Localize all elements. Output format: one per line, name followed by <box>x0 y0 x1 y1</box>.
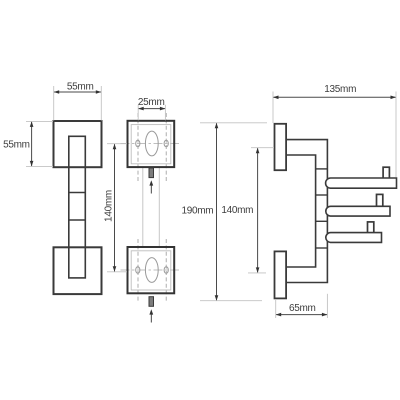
bottom wall plate (back view) <box>128 247 175 293</box>
hidden bar edges between plates <box>143 167 160 247</box>
dimension 190mm extension lines <box>200 123 267 301</box>
dimension 55mm (left height) extension lines <box>26 121 53 166</box>
arm 1 peg <box>383 167 389 178</box>
dimension 135mm extension lines <box>273 92 396 178</box>
svg-text:140mm: 140mm <box>103 190 114 222</box>
dimension 140mm (right) line and arrows <box>256 148 260 273</box>
dimension 55mm (top width) extension lines <box>54 86 102 121</box>
bar joint line 2 <box>69 219 86 221</box>
arm 2 (middle) <box>326 206 390 216</box>
top square plate (front view) <box>54 121 102 167</box>
arm 3 (bottom) <box>326 233 382 243</box>
svg-text:140mm: 140mm <box>221 205 253 216</box>
bottom square plate (front view) <box>54 247 102 294</box>
dimension 190mm line and arrows <box>215 123 219 301</box>
bottom wall plate (side) <box>275 251 287 298</box>
connecting bar (front view) <box>69 136 86 278</box>
bottom plate center oblong hole <box>145 258 158 283</box>
svg-text:190mm: 190mm <box>181 205 213 216</box>
arm 2 peg <box>377 194 383 206</box>
bar joint line 1 <box>69 192 86 194</box>
top wall plate (back view) <box>128 121 175 167</box>
dimension 25mm extension lines <box>138 105 165 121</box>
top plate screw-hole center dashed lines <box>138 113 166 183</box>
svg-text:55mm: 55mm <box>3 139 30 150</box>
dimension 135mm line and arrows <box>273 96 396 100</box>
bottom plate inner edge <box>131 251 171 290</box>
top plate left screw hole <box>136 140 140 147</box>
post joint line 1 <box>316 168 328 170</box>
dimension 65mm extension lines <box>276 294 328 318</box>
top plate inner edge <box>131 125 171 164</box>
dimension 25mm line and arrows <box>138 107 165 111</box>
top screw pointer arrow <box>149 180 153 193</box>
top plate screw stub <box>149 168 154 178</box>
bottom plate horizontal centerline <box>121 269 182 271</box>
top plate right screw hole <box>164 140 168 147</box>
svg-text:25mm: 25mm <box>138 97 165 108</box>
top plate center oblong hole <box>145 131 158 156</box>
top plate horizontal centerline <box>121 143 182 145</box>
dimension 140mm (right, plate spacing) extension lines <box>248 148 274 273</box>
post joint line 2 <box>316 194 328 196</box>
top bracket and post outline <box>286 140 327 283</box>
top wall plate (side) <box>275 124 287 170</box>
post joint line 4 <box>316 247 328 249</box>
arm 3 peg <box>368 222 374 233</box>
dimension 55mm (left height) line and arrows <box>30 121 34 166</box>
bottom plate screw stub <box>149 297 154 307</box>
svg-text:55mm: 55mm <box>67 82 94 93</box>
arm 1 (top) <box>326 178 397 188</box>
bottom plate right screw hole <box>164 267 168 274</box>
dimension 65mm line and arrows <box>276 313 328 317</box>
dimension 55mm (top width) line and arrows <box>54 90 102 94</box>
bottom plate left screw hole <box>136 267 140 274</box>
svg-text:65mm: 65mm <box>289 303 316 314</box>
dimension 140mm (middle, hole spacing) extension lines <box>107 144 127 272</box>
bottom screw pointer arrow <box>149 309 153 322</box>
bottom plate screw-hole center dashed lines <box>138 239 166 302</box>
dimension 140mm (middle) line and arrows <box>113 144 117 272</box>
post joint line 3 <box>316 220 328 222</box>
svg-text:135mm: 135mm <box>324 84 356 95</box>
